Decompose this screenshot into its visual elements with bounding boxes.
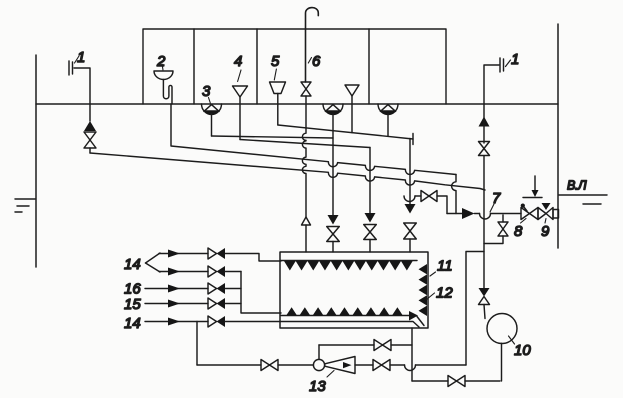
vent valve 6 <box>301 58 312 97</box>
vent pipe to tank <box>305 225 307 252</box>
svg-text:12: 12 <box>436 285 453 302</box>
collector from drain 3 to tank drop 1 <box>212 136 334 138</box>
superstructure box <box>143 29 446 104</box>
deck funnel unnumbered <box>345 85 359 133</box>
sewage tank 11 <box>280 252 428 328</box>
inlet arrow above valve 8 <box>523 176 542 198</box>
deck drain A <box>323 104 343 115</box>
svg-text:В.Л: В.Л <box>567 179 587 193</box>
inlet line 15 <box>145 298 241 309</box>
svg-text:14: 14 <box>124 315 141 332</box>
svg-text:8: 8 <box>514 223 523 240</box>
deck drain B <box>378 104 398 136</box>
svg-text:3: 3 <box>202 83 211 100</box>
ejector branch to tank drain <box>319 340 412 360</box>
vent pipe gooseneck <box>306 8 319 82</box>
ejector discharge line <box>355 360 466 371</box>
overboard discharge line <box>447 208 521 219</box>
bulkhead partition 2 <box>256 29 258 104</box>
svg-text:13: 13 <box>309 378 326 395</box>
tank drop 3 <box>404 139 417 253</box>
tank drop 2 <box>364 148 377 253</box>
deck line <box>36 103 558 105</box>
tank top heater teeth <box>284 261 413 271</box>
tank corner drain slope <box>417 317 424 326</box>
deck funnel 5 <box>270 69 286 125</box>
inlet line 14b <box>159 266 241 277</box>
svg-text:4: 4 <box>234 53 242 70</box>
pump 10 <box>487 314 517 344</box>
stop valve on left drain <box>84 132 96 153</box>
tank spray pipe <box>281 260 417 262</box>
bottom header to pump <box>412 376 500 387</box>
bypass line with stop valve pair upper <box>404 191 447 214</box>
vent pipe lower run with crossover loops <box>302 96 306 217</box>
vent pipe open end symbol <box>302 217 311 225</box>
tank right teeth column 12 <box>419 264 428 316</box>
svg-text:2: 2 <box>156 53 166 70</box>
deck fitting 1 right <box>484 58 511 104</box>
drain branch valve below line 7 <box>484 215 508 244</box>
svg-text:6: 6 <box>312 53 321 70</box>
hull right side <box>557 24 559 248</box>
deck fitting 1 left <box>69 56 90 104</box>
washbasin 2 <box>154 64 173 104</box>
tank drop 1 <box>327 114 340 252</box>
svg-text:5: 5 <box>271 53 280 70</box>
inlet line 14a with fork <box>146 248 282 272</box>
svg-text:15: 15 <box>124 296 141 313</box>
svg-text:14: 14 <box>124 256 141 273</box>
deck funnel 4 <box>233 70 248 140</box>
tank floor line <box>281 315 409 317</box>
hull left side <box>35 55 37 267</box>
bulkhead partition 3 <box>368 29 370 104</box>
branch to ejector riser <box>466 252 484 366</box>
right drain stop valve <box>479 104 490 288</box>
H1 downcomer with loop over H2 <box>452 175 456 214</box>
ejector suction line with stop valve <box>197 360 313 371</box>
svg-text:16: 16 <box>124 281 141 298</box>
waterline symbol left <box>15 199 35 212</box>
inlet line 14c bottom <box>145 316 419 327</box>
pump suction check valve <box>479 288 490 319</box>
svg-text:9: 9 <box>541 223 550 240</box>
tank drain pipe <box>411 328 413 381</box>
svg-text:11: 11 <box>437 258 453 275</box>
tank floor teeth <box>286 307 403 315</box>
header H2 from left drain <box>90 153 485 190</box>
svg-text:1: 1 <box>511 51 519 68</box>
ejector 13 <box>313 357 355 374</box>
hull penetration piece <box>553 210 559 219</box>
header H1 from washbasin <box>171 104 456 175</box>
inlet line 16 <box>145 283 241 294</box>
right drain check valve <box>479 117 490 127</box>
header d1 from funnel 5 to capped end <box>278 125 413 145</box>
ejector riser from line 14c <box>196 322 198 366</box>
svg-text:1: 1 <box>77 49 85 66</box>
check valve on left drain <box>84 104 96 131</box>
valve 8 with handle <box>521 204 538 220</box>
inlet manifold to tank floor <box>241 272 281 314</box>
waterline symbol right <box>559 195 607 204</box>
collector from funnel 4 to tank drop 2 <box>240 140 370 148</box>
svg-text:10: 10 <box>514 342 531 359</box>
valve 9 non-return <box>538 203 553 220</box>
deck drain 3 <box>202 98 222 137</box>
tank floor arrow <box>409 311 418 321</box>
bulkhead partition 1 <box>193 29 195 104</box>
pump discharge <box>501 343 503 381</box>
